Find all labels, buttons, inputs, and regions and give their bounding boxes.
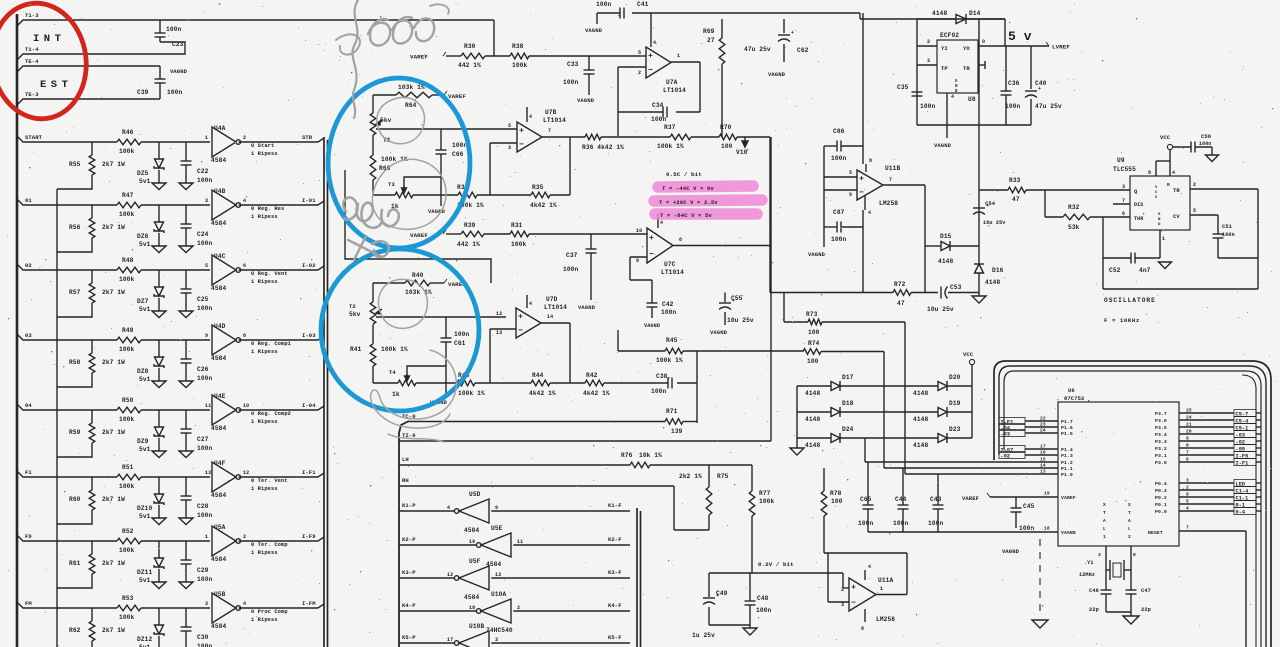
capacitor C42 feedback bbox=[630, 257, 676, 318]
pencil circle in blue2 bottom bbox=[371, 350, 457, 428]
op-amp U11A bbox=[849, 577, 895, 623]
svg-text:VAGND: VAGND bbox=[585, 27, 603, 34]
svg-text:G: G bbox=[955, 80, 958, 84]
wire row K1-P bbox=[399, 510, 630, 512]
svg-text:V10: V10 bbox=[736, 149, 748, 156]
pencil scribble top bbox=[336, 0, 449, 118]
wire MCU P0.3 bbox=[1155, 485, 1261, 495]
wire U11A out bbox=[876, 586, 907, 595]
svg-text:T3: T3 bbox=[388, 181, 395, 188]
svg-text:RESET: RESET bbox=[1148, 530, 1163, 536]
svg-text:1 Ripess: 1 Ripess bbox=[251, 486, 278, 492]
svg-text:R45: R45 bbox=[666, 337, 678, 344]
svg-text:100n: 100n bbox=[831, 155, 846, 162]
resistor R59 bbox=[57, 410, 125, 457]
svg-text:4584: 4584 bbox=[211, 425, 226, 432]
crystal Y1 bbox=[1079, 560, 1124, 580]
wire R73 drop bbox=[905, 322, 996, 474]
svg-text:2k7 1W: 2k7 1W bbox=[102, 627, 125, 634]
svg-text:VAGND: VAGND bbox=[1002, 548, 1020, 555]
svg-text:5v1: 5v1 bbox=[139, 178, 151, 185]
svg-text:R57: R57 bbox=[69, 289, 81, 296]
svg-text:1 Ripess: 1 Ripess bbox=[251, 617, 278, 623]
svg-text:1: 1 bbox=[880, 586, 883, 592]
wire reg bottom rail bbox=[917, 93, 1031, 138]
svg-text:5v1: 5v1 bbox=[139, 306, 151, 313]
node V10 bbox=[736, 137, 748, 156]
resistor R70 bbox=[719, 124, 737, 150]
svg-text:1: 1 bbox=[1103, 534, 1106, 540]
ground under C25 bbox=[179, 311, 193, 318]
svg-text:C26: C26 bbox=[197, 366, 209, 373]
svg-text:R70: R70 bbox=[720, 124, 732, 131]
svg-text:4: 4 bbox=[653, 40, 656, 46]
svg-text:3: 3 bbox=[495, 637, 498, 643]
svg-text:TE-3: TE-3 bbox=[25, 91, 39, 98]
pencil circle in blue2 top bbox=[378, 279, 427, 328]
wire LH row bbox=[399, 464, 752, 466]
capacitor C44 bbox=[893, 468, 909, 532]
inverter U4F bbox=[205, 460, 249, 499]
svg-text:DZ6: DZ6 bbox=[137, 233, 149, 240]
svg-text:P1.3: P1.3 bbox=[1061, 453, 1073, 459]
svg-text:100n: 100n bbox=[452, 142, 467, 149]
svg-text:4: 4 bbox=[529, 114, 532, 120]
node I-01 bbox=[302, 197, 316, 204]
wire osc CV bbox=[1190, 208, 1218, 234]
svg-text:100k 1%: 100k 1% bbox=[381, 346, 408, 353]
inverter U5E bbox=[469, 525, 523, 568]
node K2-F bbox=[608, 536, 622, 543]
svg-text:14: 14 bbox=[547, 314, 553, 320]
pencil circle in blue1 top bbox=[377, 97, 425, 143]
node I-02 bbox=[302, 262, 316, 269]
node I-F9 bbox=[302, 533, 316, 540]
capacitor C45 bbox=[1011, 497, 1035, 532]
svg-text:OSCILLATORE: OSCILLATORE bbox=[1104, 297, 1156, 304]
text F=10KHz bbox=[1104, 317, 1140, 324]
svg-text:100k: 100k bbox=[119, 483, 134, 490]
wire R40 rail bbox=[373, 283, 444, 302]
zener diode DZ6 bbox=[137, 205, 164, 248]
svg-text:T2: T2 bbox=[349, 303, 356, 310]
svg-text:100n: 100n bbox=[454, 331, 469, 338]
node VAREF row2 bbox=[410, 230, 446, 239]
svg-text:4584: 4584 bbox=[211, 157, 226, 164]
ground under C29 bbox=[179, 582, 193, 589]
wire U7B out bbox=[542, 128, 585, 137]
zener diode DZ5 bbox=[137, 142, 164, 185]
svg-text:7: 7 bbox=[889, 177, 892, 183]
svg-text:4: 4 bbox=[447, 505, 450, 511]
resistor R43 bbox=[457, 372, 485, 397]
node U7B +in pin bbox=[508, 123, 511, 129]
svg-text:D15: D15 bbox=[940, 233, 952, 240]
svg-text:DZ8: DZ8 bbox=[137, 368, 149, 375]
svg-text:7: 7 bbox=[548, 128, 551, 134]
svg-text:P3.3: P3.3 bbox=[1155, 439, 1167, 445]
wire left bus vertical bbox=[16, 14, 19, 647]
svg-text:R64: R64 bbox=[405, 102, 417, 109]
capacitor C86 bbox=[824, 128, 863, 162]
wire MCU P0.0 bbox=[1155, 506, 1261, 516]
svg-text:100n: 100n bbox=[197, 445, 212, 452]
resistor R42 bbox=[583, 372, 610, 397]
svg-text:C34: C34 bbox=[652, 102, 664, 109]
wire U11B out bbox=[883, 177, 925, 185]
svg-text:1 Ripess: 1 Ripess bbox=[251, 279, 278, 285]
wire T1-4 bbox=[17, 42, 185, 60]
zener diode DZ11 bbox=[137, 541, 164, 584]
svg-text:R73: R73 bbox=[806, 311, 818, 318]
svg-text:5kv: 5kv bbox=[380, 117, 392, 124]
wire row 04 bbox=[17, 404, 324, 410]
svg-text:I-03: I-03 bbox=[302, 332, 316, 339]
svg-text:100n: 100n bbox=[661, 309, 676, 316]
svg-text:YI: YI bbox=[941, 45, 948, 52]
svg-text:4n7: 4n7 bbox=[1139, 267, 1151, 274]
svg-text:2: 2 bbox=[841, 587, 844, 593]
svg-text:U10A: U10A bbox=[491, 591, 506, 598]
svg-text:C45: C45 bbox=[1023, 503, 1035, 510]
svg-text:C54: C54 bbox=[985, 200, 996, 207]
svg-text:22p: 22p bbox=[1089, 607, 1099, 613]
inverter U4E bbox=[205, 393, 249, 432]
svg-text:02: 02 bbox=[25, 262, 32, 269]
node K1-P bbox=[402, 502, 416, 509]
svg-text:100k 1%: 100k 1% bbox=[656, 357, 683, 364]
svg-text:25: 25 bbox=[1186, 408, 1192, 414]
svg-text:100k: 100k bbox=[119, 547, 134, 554]
wire right drop x770 bbox=[769, 137, 771, 293]
wire U7A +in bbox=[638, 50, 646, 56]
wire VAREF row1 bbox=[446, 55, 640, 57]
svg-text:P3.5: P3.5 bbox=[1155, 425, 1167, 431]
svg-text:U9: U9 bbox=[1117, 157, 1125, 164]
wire chain link vertical bbox=[56, 189, 58, 647]
svg-text:T = -84C V = 5v: T = -84C V = 5v bbox=[660, 212, 712, 219]
node F1 bbox=[25, 469, 32, 476]
svg-text:100k: 100k bbox=[511, 241, 526, 248]
svg-text:C50: C50 bbox=[1201, 133, 1211, 140]
resistor R61 bbox=[57, 541, 125, 588]
capacitor C25 bbox=[181, 270, 213, 312]
svg-text:4k42 1%: 4k42 1% bbox=[529, 390, 556, 397]
svg-text:4584: 4584 bbox=[211, 556, 226, 563]
node I-04 bbox=[302, 402, 316, 409]
wire right bus of left block bbox=[324, 137, 328, 647]
svg-text:DZ10: DZ10 bbox=[137, 505, 152, 512]
resistor R71 bbox=[665, 408, 683, 435]
svg-text:R37: R37 bbox=[664, 124, 676, 131]
svg-text:100n: 100n bbox=[596, 1, 611, 8]
svg-text:R35: R35 bbox=[532, 184, 544, 191]
svg-text:U5D: U5D bbox=[469, 491, 481, 498]
svg-text:X: X bbox=[1128, 502, 1131, 508]
svg-text:4: 4 bbox=[243, 601, 246, 607]
ground VAGND bbox=[170, 68, 188, 75]
resistor R45 row bbox=[618, 330, 803, 351]
svg-text:A: A bbox=[1128, 518, 1131, 524]
diode D19 bbox=[913, 400, 961, 423]
svg-text:9: 9 bbox=[495, 505, 498, 511]
node K3-F bbox=[608, 569, 622, 576]
svg-text:8: 8 bbox=[1133, 552, 1136, 558]
svg-text:2: 2 bbox=[1193, 182, 1196, 188]
svg-text:100k 1%: 100k 1% bbox=[458, 390, 485, 397]
ground under DZ8 bbox=[152, 381, 166, 388]
svg-text:P0.2: P0.2 bbox=[1155, 495, 1167, 501]
svg-text:100n: 100n bbox=[928, 520, 943, 527]
capacitor C47 bbox=[1126, 570, 1152, 613]
node I-F1 bbox=[302, 469, 316, 476]
svg-text:47: 47 bbox=[1012, 196, 1020, 203]
ground under C48 bbox=[743, 628, 757, 635]
svg-text:U4C: U4C bbox=[214, 253, 226, 260]
wire osc pin1 gnd bbox=[1159, 230, 1172, 269]
svg-text:27: 27 bbox=[707, 37, 715, 44]
node T1-4 bbox=[25, 46, 39, 53]
resistor R50 bbox=[117, 397, 141, 423]
svg-text:3: 3 bbox=[205, 601, 208, 607]
wire U11A pin4 bbox=[865, 564, 871, 580]
svg-text:VAGND: VAGND bbox=[710, 329, 728, 336]
svg-text:R72: R72 bbox=[894, 281, 906, 288]
resistor R55 bbox=[57, 142, 125, 189]
node FM bbox=[25, 600, 32, 607]
zener diode DZ10 bbox=[137, 477, 164, 520]
inverter U4A bbox=[205, 125, 246, 164]
svg-text:VAGND: VAGND bbox=[578, 304, 596, 311]
wire U7D out bbox=[541, 314, 570, 323]
resistor R33 bbox=[1008, 177, 1026, 203]
svg-text:R41: R41 bbox=[350, 346, 362, 353]
mcu U6 box bbox=[1058, 387, 1179, 546]
ground under D16 bbox=[972, 296, 986, 303]
wire MCU P3.2 bbox=[1155, 443, 1261, 453]
svg-text:1k: 1k bbox=[392, 391, 400, 398]
svg-text:01: 01 bbox=[25, 197, 32, 204]
svg-text:0 Ter. Comp: 0 Ter. Comp bbox=[251, 542, 288, 548]
svg-text:R36 4k42 1%: R36 4k42 1% bbox=[582, 144, 624, 151]
trimmer T4 bbox=[389, 369, 416, 398]
resistor R76 bbox=[621, 452, 662, 468]
trimmer T3 bbox=[388, 181, 413, 210]
svg-text:1: 1 bbox=[205, 135, 208, 141]
capacitor C23 bbox=[155, 20, 184, 48]
capacitor C28 bbox=[181, 477, 213, 519]
svg-text:4584: 4584 bbox=[464, 527, 479, 534]
wire MCU bus frame outer bbox=[994, 361, 1271, 647]
svg-text:103k 1%: 103k 1% bbox=[398, 84, 425, 91]
ground under DZ5 bbox=[152, 183, 166, 190]
node I-03 bbox=[302, 332, 316, 339]
potentiometer T1 bbox=[370, 113, 391, 144]
ground under DZ10 bbox=[152, 518, 166, 525]
svg-text:R77: R77 bbox=[759, 490, 771, 497]
wire row K4-P bbox=[399, 610, 630, 612]
svg-text:DZ12: DZ12 bbox=[137, 636, 152, 643]
svg-text:G: G bbox=[1158, 213, 1161, 217]
svg-text:100n: 100n bbox=[197, 643, 212, 647]
svg-text:K3-F: K3-F bbox=[608, 569, 622, 576]
svg-text:3: 3 bbox=[508, 145, 511, 151]
svg-text:20: 20 bbox=[1186, 429, 1192, 435]
svg-text:C40: C40 bbox=[1035, 80, 1047, 87]
svg-text:100: 100 bbox=[721, 143, 733, 150]
svg-text:U11A: U11A bbox=[878, 577, 893, 584]
resistor R73 bbox=[806, 311, 822, 336]
svg-text:139: 139 bbox=[671, 428, 683, 435]
resistor R62 bbox=[57, 608, 125, 647]
svg-text:4148: 4148 bbox=[913, 390, 928, 397]
resistor R47 bbox=[117, 192, 141, 218]
svg-text:2k7 1W: 2k7 1W bbox=[102, 496, 125, 503]
svg-text:1 Ripess: 1 Ripess bbox=[251, 550, 278, 556]
svg-text:5v1: 5v1 bbox=[139, 513, 151, 520]
svg-text:TP: TP bbox=[941, 65, 948, 72]
svg-text:FM: FM bbox=[25, 600, 32, 607]
svg-text:P1.5: P1.5 bbox=[1061, 431, 1073, 437]
capacitor C52 bbox=[1103, 253, 1160, 275]
resistor R60 bbox=[57, 477, 125, 524]
svg-text:13: 13 bbox=[1040, 469, 1046, 475]
wire osc DIS stub bbox=[1113, 198, 1130, 204]
svg-text:5 v: 5 v bbox=[1008, 29, 1032, 44]
svg-text:K3-P: K3-P bbox=[402, 569, 416, 576]
wire R37 row bbox=[618, 136, 770, 138]
svg-text:7: 7 bbox=[1122, 198, 1125, 204]
wire R72 row bbox=[770, 292, 938, 294]
svg-text:100k: 100k bbox=[512, 62, 527, 69]
svg-text:D14: D14 bbox=[969, 10, 981, 17]
wire U11A feedback bbox=[824, 553, 907, 595]
svg-text:R: R bbox=[1167, 182, 1170, 188]
svg-text:100n: 100n bbox=[197, 177, 212, 184]
wire T1 wiper to U7B bbox=[376, 128, 517, 130]
svg-text:VAGND: VAGND bbox=[577, 97, 595, 104]
svg-text:VCC: VCC bbox=[963, 351, 974, 358]
svg-text:21: 21 bbox=[1186, 422, 1192, 428]
resistor R48 bbox=[117, 257, 141, 283]
svg-text:87C752: 87C752 bbox=[1064, 395, 1084, 402]
svg-text:5: 5 bbox=[508, 123, 511, 129]
svg-text:K5-F: K5-F bbox=[608, 634, 622, 641]
wire MCU bus frame inner bbox=[999, 366, 1266, 647]
svg-text:47: 47 bbox=[897, 300, 905, 307]
capacitor C35 bbox=[897, 84, 935, 110]
svg-text:I-FM: I-FM bbox=[302, 600, 316, 607]
svg-text:P3.0: P3.0 bbox=[1155, 460, 1167, 466]
wire stage2 bottom rail bbox=[373, 382, 697, 384]
svg-text:VAGND: VAGND bbox=[934, 142, 952, 149]
wire dashed VAGND drop bbox=[1039, 539, 1041, 616]
ground VAGND under C42 bbox=[644, 323, 660, 329]
svg-text:I-F1: I-F1 bbox=[302, 469, 316, 476]
svg-text:DZ11: DZ11 bbox=[137, 569, 152, 576]
node VAREF row1 bbox=[410, 52, 446, 61]
capacitor C33 bbox=[563, 56, 595, 95]
timer U9 pin text bbox=[1134, 182, 1180, 227]
node VAREF mcu bbox=[962, 493, 990, 502]
svg-text:TLC555: TLC555 bbox=[1113, 166, 1136, 173]
resistor R51 bbox=[117, 464, 141, 490]
svg-text:U4A: U4A bbox=[214, 125, 226, 132]
svg-text:P1.6: P1.6 bbox=[1061, 425, 1073, 431]
resistor R35 bbox=[530, 184, 557, 209]
wire VAREF row2 bbox=[446, 233, 645, 235]
oscillator U9 label bbox=[1113, 157, 1136, 173]
wire top rail T1-3 bbox=[17, 20, 494, 26]
svg-text:R55: R55 bbox=[69, 161, 81, 168]
svg-text:7: 7 bbox=[1186, 525, 1189, 531]
ground VAGND reg bbox=[934, 142, 952, 149]
resistor R49 bbox=[117, 327, 141, 353]
svg-text:T1-4: T1-4 bbox=[25, 46, 39, 53]
svg-text:8: 8 bbox=[243, 333, 246, 339]
wire row F1 bbox=[17, 471, 324, 477]
wire U11A pin8 bbox=[861, 609, 865, 632]
svg-text:EST: EST bbox=[40, 79, 72, 91]
svg-text:T4: T4 bbox=[389, 369, 396, 376]
annotation U4F bbox=[251, 478, 288, 492]
node net -03 bbox=[999, 428, 1073, 438]
svg-text:P1.1: P1.1 bbox=[1061, 466, 1073, 472]
svg-text:P1.4: P1.4 bbox=[1061, 447, 1073, 453]
svg-text:15: 15 bbox=[1040, 457, 1046, 463]
svg-text:0 Reg. Comp1: 0 Reg. Comp1 bbox=[251, 341, 291, 347]
svg-text:4148: 4148 bbox=[805, 390, 820, 397]
wire diode row y386 bbox=[797, 385, 972, 387]
resistor R77 bbox=[749, 465, 774, 573]
wire row F9 bbox=[17, 535, 324, 541]
svg-text:4148: 4148 bbox=[985, 279, 1000, 286]
op-amp U11B bbox=[857, 165, 900, 207]
wire R74 drop bbox=[884, 352, 996, 469]
node K5-F bbox=[608, 634, 622, 641]
svg-text:2: 2 bbox=[243, 534, 246, 540]
wire osc THR bbox=[1045, 190, 1130, 217]
svg-text:5v1: 5v1 bbox=[139, 241, 151, 248]
wire U11A +in bbox=[828, 553, 849, 608]
svg-text:8: 8 bbox=[861, 626, 864, 632]
svg-text:4: 4 bbox=[868, 210, 871, 216]
svg-text:D17: D17 bbox=[842, 374, 854, 381]
wire U7A -in bbox=[618, 67, 646, 76]
svg-text:R48: R48 bbox=[122, 257, 134, 264]
op-amp U7C bbox=[647, 214, 684, 276]
svg-text:C51: C51 bbox=[1222, 223, 1233, 230]
ground VAGND under C62 bbox=[768, 71, 786, 78]
svg-text:INT: INT bbox=[33, 33, 65, 45]
svg-text:+: + bbox=[791, 30, 794, 36]
node K1-F bbox=[608, 502, 622, 509]
svg-text:D20: D20 bbox=[949, 374, 961, 381]
resistor R40 bbox=[405, 272, 432, 296]
svg-text:C28: C28 bbox=[197, 503, 209, 510]
resistor R75 bbox=[679, 465, 729, 530]
svg-text:2k7 1W: 2k7 1W bbox=[102, 560, 125, 567]
svg-text:12: 12 bbox=[447, 572, 453, 578]
wire MCU P0.1 bbox=[1155, 499, 1261, 509]
svg-text:C52: C52 bbox=[1109, 267, 1121, 274]
annotation U4A bbox=[251, 143, 278, 157]
svg-text:100n: 100n bbox=[651, 388, 666, 395]
svg-text:R69: R69 bbox=[703, 28, 715, 35]
svg-text:3: 3 bbox=[1122, 184, 1125, 190]
zener diode DZ8 bbox=[137, 340, 164, 383]
svg-text:LT1014: LT1014 bbox=[543, 117, 566, 124]
